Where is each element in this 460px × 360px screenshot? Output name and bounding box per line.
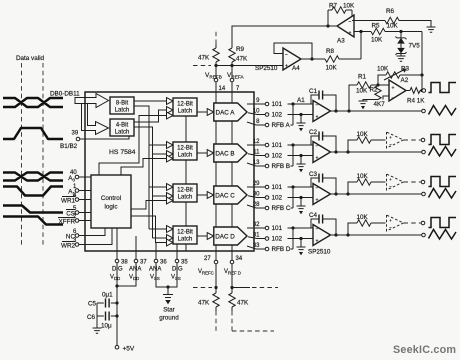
wire A1 waveform	[3, 187, 63, 196]
svg-text:RFB B: RFB B	[272, 163, 291, 170]
ground R2	[359, 101, 368, 109]
op-amp comparator C (implied, dashed)	[387, 174, 404, 190]
op-amp A3	[327, 10, 329, 26]
wire latch chain	[185, 116, 187, 251]
svg-text:102: 102	[272, 112, 283, 119]
svg-text:C5: C5	[88, 301, 97, 308]
latch 8-Bit	[110, 97, 134, 114]
svg-text:WR2: WR2	[61, 243, 75, 250]
wire B1/B2 pulse waveform	[3, 128, 63, 139]
wire VREFA to A3 output rail	[232, 26, 337, 48]
op-amp B	[313, 142, 331, 163]
svg-text:R4 1K: R4 1K	[407, 98, 425, 105]
svg-text:A1: A1	[297, 97, 305, 104]
wire control enable 4	[131, 216, 167, 243]
wire control enable 2	[121, 159, 167, 176]
wire B output row	[331, 151, 422, 153]
svg-text:101: 101	[272, 225, 283, 232]
svg-text:−: −	[389, 184, 392, 189]
svg-text:ANA: ANA	[149, 267, 161, 273]
latch 12-Bit D	[167, 226, 174, 233]
svg-text:10K: 10K	[371, 37, 383, 44]
svg-text:101: 101	[272, 142, 283, 149]
svg-text:12-Bit: 12-Bit	[177, 188, 193, 194]
ground IO2 A	[297, 123, 306, 131]
latch 12-Bit A	[167, 98, 174, 105]
svg-text:−: −	[349, 19, 352, 25]
svg-text:SeekIC.com: SeekIC.com	[393, 344, 456, 356]
svg-text:+: +	[389, 177, 392, 182]
svg-text:Latch: Latch	[178, 153, 193, 159]
wire 4-bit latch data bus up to latch 1	[134, 110, 167, 122]
svg-text:R8: R8	[326, 48, 335, 55]
svg-text:−: −	[316, 103, 319, 109]
svg-text:R1: R1	[358, 74, 367, 81]
wire latch to DAC D	[197, 235, 207, 237]
zener pair 7V5	[400, 32, 402, 39]
ground IO2 C	[297, 206, 306, 214]
svg-text:DAC C: DAC C	[215, 193, 235, 200]
resistor 47K (VREFB pull)	[215, 29, 217, 44]
svg-text:XFFR: XFFR	[59, 219, 76, 226]
pin 36 ANA VSS	[155, 251, 157, 259]
svg-text:4K7: 4K7	[374, 101, 386, 108]
svg-text:Latch: Latch	[178, 109, 193, 115]
svg-text:VSS: VSS	[171, 275, 181, 281]
svg-text:102: 102	[272, 195, 283, 202]
svg-text:B1/B2: B1/B2	[60, 143, 78, 150]
wire A1 output row	[331, 110, 422, 112]
resistor R3 10K trimmer	[378, 75, 386, 85]
wire A2 minus to ground	[383, 96, 389, 100]
wire control enable 1	[99, 116, 167, 176]
svg-text:−: −	[389, 142, 392, 147]
svg-text:−: −	[316, 186, 319, 192]
svg-text:C3: C3	[309, 171, 318, 178]
wire D output row	[331, 234, 422, 236]
svg-text:101: 101	[272, 184, 283, 191]
svg-text:+: +	[389, 135, 392, 140]
svg-text:C4: C4	[309, 212, 318, 219]
wire B1/B2 to 4-bit latch	[80, 136, 129, 139]
svg-text:+: +	[316, 115, 319, 121]
DAC A	[214, 103, 247, 121]
svg-text:WR1: WR1	[61, 198, 75, 205]
ground R6	[427, 27, 436, 32]
svg-text:32: 32	[253, 222, 260, 228]
svg-text:R9: R9	[236, 46, 245, 53]
svg-text:4-Bit: 4-Bit	[116, 123, 129, 129]
svg-text:Latch: Latch	[115, 108, 130, 114]
node triangle wave glyph D	[429, 230, 457, 240]
svg-text:+: +	[349, 31, 352, 37]
svg-text:C1: C1	[309, 88, 318, 95]
terminal triangle-wave out A	[422, 109, 426, 113]
resistor R5 10K	[354, 31, 371, 33]
terminal square-wave out D	[421, 221, 425, 225]
wire data-bus waveform DB0-DB11	[3, 98, 63, 107]
svg-text:0μ1: 0μ1	[102, 292, 113, 299]
svg-text:−: −	[389, 225, 392, 230]
svg-text:47K: 47K	[237, 300, 249, 307]
node square wave glyph D	[429, 218, 457, 228]
svg-text:8: 8	[256, 119, 260, 125]
svg-text:10μ: 10μ	[101, 323, 112, 330]
svg-text:47K: 47K	[198, 55, 210, 62]
svg-text:+: +	[389, 218, 392, 223]
resistor R8 10K	[301, 58, 325, 60]
DAC C	[214, 186, 247, 204]
svg-text:ground: ground	[159, 315, 179, 322]
svg-text:RFB A: RFB A	[272, 122, 291, 129]
svg-text:14: 14	[219, 86, 226, 92]
svg-text:10K: 10K	[343, 3, 355, 10]
svg-text:35: 35	[181, 260, 188, 266]
wire XFFR waveform	[3, 217, 63, 225]
DAC D	[214, 227, 247, 245]
node +5V	[115, 345, 119, 349]
wire control enable 3	[131, 201, 167, 210]
svg-text:DAC A: DAC A	[216, 110, 236, 117]
svg-text:−: −	[285, 52, 288, 58]
wire VREFC pull-down	[215, 264, 217, 293]
svg-text:A4: A4	[292, 65, 300, 72]
svg-text:C6: C6	[87, 314, 96, 321]
svg-text:27: 27	[204, 256, 211, 262]
svg-text:DAC D: DAC D	[215, 234, 235, 241]
svg-text:Latch: Latch	[178, 195, 193, 201]
node triangle wave glyph C	[429, 189, 457, 199]
node square wave glyph B	[429, 135, 457, 145]
wire VDD rails join	[117, 263, 136, 346]
svg-text:+: +	[316, 156, 319, 162]
wire 4-bit latch data bus down	[134, 127, 167, 238]
svg-text:+: +	[285, 64, 288, 70]
op-amp D SP2510	[313, 225, 331, 246]
svg-text:7: 7	[236, 86, 240, 92]
node triangle wave glyph B	[429, 147, 457, 157]
node triangle wave glyph A	[429, 106, 457, 116]
op-amp comparator D (implied, dashed)	[387, 215, 404, 231]
wire comparator feedback riser	[421, 32, 423, 91]
svg-text:47K: 47K	[236, 56, 248, 63]
svg-text:39: 39	[72, 131, 79, 137]
svg-text:DB0-DB11: DB0-DB11	[50, 91, 80, 98]
op-amp C	[313, 184, 331, 205]
wire data bus hollow arrow into 8-bit latch	[82, 104, 109, 135]
node square wave glyph C	[429, 177, 457, 187]
terminal square-wave out C	[421, 180, 425, 184]
wire riser comparator B / resistor 10K	[348, 140, 357, 152]
svg-text:10K: 10K	[387, 23, 399, 30]
svg-text:logic: logic	[105, 204, 118, 211]
svg-text:A3: A3	[337, 38, 345, 45]
wire IO1 A to op-amp	[288, 103, 314, 105]
wire VREFA internal rail	[231, 92, 233, 251]
svg-text:C2: C2	[309, 129, 318, 136]
svg-text:47K: 47K	[198, 300, 210, 307]
wire IO2 A to op-amp and ground	[288, 115, 314, 124]
ground C5/C6	[96, 303, 98, 328]
svg-text:12-Bit: 12-Bit	[177, 146, 193, 152]
ground IO2 D	[297, 247, 306, 255]
svg-text:VREFA: VREFA	[227, 72, 244, 79]
wire 8-bit latch data bus out	[134, 101, 167, 229]
svg-text:12: 12	[253, 139, 260, 145]
DAC B	[214, 144, 247, 162]
svg-text:+: +	[316, 198, 319, 204]
wire CS waveform	[3, 206, 63, 213]
svg-text:RFB C: RFB C	[272, 205, 291, 212]
op-amp chip HS 7584 outline	[85, 92, 254, 251]
wire A2 output / resistor R4 1K	[406, 88, 422, 94]
terminal square-wave out B	[421, 138, 425, 142]
svg-text:Latch: Latch	[115, 130, 130, 136]
latch 12-Bit B	[167, 142, 174, 149]
svg-text:10K: 10K	[377, 66, 389, 73]
pin 38 DIG VDD	[116, 251, 118, 259]
control logic block	[91, 175, 131, 228]
svg-text:102: 102	[272, 236, 283, 243]
ground zener	[397, 56, 406, 61]
ground IO2 B	[297, 164, 306, 172]
svg-text:A2: A2	[401, 77, 409, 84]
svg-text:+5V: +5V	[123, 346, 135, 353]
svg-text:36: 36	[160, 260, 167, 266]
svg-text:29: 29	[253, 181, 260, 187]
latch 12-Bit C	[167, 184, 174, 191]
wire RFB A to IO1 node	[291, 104, 294, 125]
svg-text:VSS: VSS	[150, 275, 160, 281]
wire latch to DAC C	[197, 194, 207, 196]
svg-text:12-Bit: 12-Bit	[177, 230, 193, 236]
svg-text:10K: 10K	[326, 65, 338, 72]
svg-text:VDD: VDD	[129, 275, 139, 281]
svg-text:VREFB: VREFB	[205, 72, 222, 79]
wire latch to DAC B	[197, 152, 207, 154]
ground star	[163, 295, 173, 298]
wire latch to DAC A	[197, 111, 207, 113]
svg-text:A0: A0	[68, 175, 75, 183]
svg-text:+: +	[316, 239, 319, 245]
svg-text:ANA: ANA	[129, 267, 141, 273]
terminal square-wave out A	[422, 89, 426, 93]
svg-text:−: −	[316, 144, 319, 150]
svg-text:RFB D: RFB D	[272, 246, 291, 253]
svg-text:8-Bit: 8-Bit	[116, 101, 129, 107]
wire supply rails internal	[117, 228, 177, 251]
svg-text:SP2510: SP2510	[255, 65, 278, 72]
svg-text:9: 9	[256, 98, 260, 104]
wire riser comparator D / resistor 10K	[348, 223, 357, 235]
svg-text:12-Bit: 12-Bit	[177, 102, 193, 108]
wire A0 address waveform	[3, 173, 63, 181]
wire VREF junction row	[216, 62, 283, 66]
svg-text:7V5: 7V5	[409, 43, 421, 50]
wire C output row	[331, 193, 422, 195]
pin 37 ANA VDD	[135, 251, 137, 259]
svg-text:DAC B: DAC B	[215, 151, 234, 158]
svg-text:SP2510: SP2510	[308, 249, 331, 256]
svg-text:Latch: Latch	[178, 237, 193, 243]
svg-text:−: −	[392, 96, 395, 102]
resistor R6 10K	[352, 20, 385, 22]
svg-text:38: 38	[121, 260, 128, 266]
wire VSS rails join / star ground	[156, 263, 177, 295]
node Data-valid window (dashed timing lines)	[22, 63, 44, 245]
svg-text:102: 102	[272, 153, 283, 160]
svg-text:Data valid: Data valid	[16, 55, 44, 62]
resistor 47K VREFD	[229, 293, 235, 307]
wire VREFD pull-down	[231, 264, 233, 293]
svg-text:+: +	[392, 86, 395, 92]
svg-text:Control: Control	[101, 195, 121, 202]
svg-text:VREFC: VREFC	[198, 269, 214, 275]
pin 35 DIG VSS	[176, 251, 178, 259]
svg-text:VDD: VDD	[110, 275, 120, 281]
wire VREFB internal rail	[215, 92, 217, 251]
svg-text:R2: R2	[369, 87, 378, 94]
svg-text:−: −	[316, 227, 319, 233]
op-amp comparator B (implied, dashed)	[387, 132, 404, 148]
latch 4-Bit	[110, 119, 134, 136]
wire riser to comparator A	[349, 85, 357, 111]
wire riser comparator C / resistor 10K	[348, 182, 357, 194]
svg-text:HS 7584: HS 7584	[109, 149, 136, 156]
svg-text:R6: R6	[386, 8, 395, 15]
svg-text:10K: 10K	[356, 88, 368, 95]
svg-text:Star: Star	[163, 307, 175, 314]
svg-text:37: 37	[140, 260, 147, 266]
svg-text:34: 34	[236, 256, 243, 262]
node square wave glyph A	[429, 83, 457, 93]
svg-text:101: 101	[272, 101, 283, 108]
